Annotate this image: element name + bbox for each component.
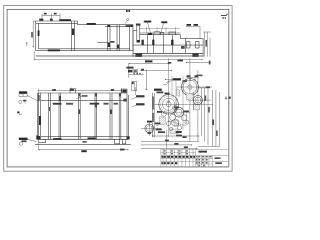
mid tall box xyxy=(132,82,137,91)
drawing number text xyxy=(215,157,221,159)
gear G3 inner xyxy=(195,97,201,103)
view C bottom dim text xyxy=(120,149,125,151)
text blob right of G1 xyxy=(174,107,179,109)
view B leader label 2 xyxy=(161,21,167,23)
view A left edge xyxy=(35,21,37,51)
mini grid top row texts xyxy=(196,156,197,157)
view A col1 bar xyxy=(72,29,75,36)
bottom-left cluster bold text xyxy=(19,138,28,140)
view A col3 bar xyxy=(117,45,119,49)
view C small boss left section xyxy=(70,89,76,94)
view B right edge xyxy=(202,38,204,56)
view C right band dark xyxy=(123,99,126,102)
view C col1 band bar xyxy=(49,107,51,111)
view C column pair 1 xyxy=(49,93,51,139)
mid ticks above 74.5 line xyxy=(134,73,135,74)
gear G7 xyxy=(178,126,182,130)
centerline shaft1 vertical xyxy=(168,58,170,137)
view C top dim text 1 xyxy=(52,89,56,91)
view B band dark bar xyxy=(148,33,153,35)
text blob left of G2 rim xyxy=(183,80,188,82)
view A dim text b xyxy=(54,13,57,15)
tolerance bold text xyxy=(19,91,27,93)
view A text bar on top edge right xyxy=(87,23,96,25)
view B leader lines xyxy=(148,23,164,33)
leader to wall xyxy=(27,95,38,101)
mid left vertical xyxy=(128,63,130,78)
title block right divisions xyxy=(195,155,228,167)
view B right window rects xyxy=(187,42,191,49)
view D left wall xyxy=(152,93,154,137)
view C band segment 4 xyxy=(104,103,109,105)
flanged bore circle inner xyxy=(147,126,153,132)
mid tolerance text row xyxy=(128,70,133,73)
bottom dim texts xyxy=(158,131,165,133)
extra small circle c xyxy=(172,119,179,126)
view A col2 mid bar xyxy=(108,43,110,47)
view C mid leader arrow xyxy=(76,97,82,100)
mini grid bottom marks xyxy=(198,165,200,167)
outer border frame xyxy=(4,6,232,172)
view C left wall bar low xyxy=(39,116,41,125)
view B bottom bold xyxy=(133,52,203,54)
baseline 1 xyxy=(36,54,203,56)
view label top center xyxy=(126,10,128,12)
view C right foot dark xyxy=(127,136,130,139)
view B dim text right b xyxy=(194,24,199,26)
small dim text left of view B xyxy=(126,25,130,27)
top right arrow note xyxy=(221,14,228,16)
G-VIEW-C front view of bed housing xyxy=(35,89,131,145)
extra small circle e xyxy=(185,120,189,124)
view B top band xyxy=(140,33,181,35)
gear G4 outer xyxy=(174,107,184,117)
view A mid dim line xyxy=(98,42,111,44)
G-MID between view B and view D xyxy=(129,63,172,90)
inner border frame xyxy=(7,9,229,167)
centerline small flange circle vertical xyxy=(148,121,150,136)
left grid small marks row1 xyxy=(164,150,166,151)
view C bottom dim line xyxy=(39,143,129,150)
view C boss dark xyxy=(122,90,126,93)
view C bottom text bar 1 xyxy=(53,138,61,140)
datum filled square xyxy=(17,111,19,113)
view A left wall bar xyxy=(38,30,40,36)
G-TOP-LABELS xyxy=(126,10,130,12)
view B step right xyxy=(179,35,181,39)
view B right dim rotated text xyxy=(206,40,208,47)
hatch patch low center xyxy=(170,129,178,134)
view A column pair 1 xyxy=(72,21,75,51)
view C col top ticks xyxy=(79,93,81,96)
leader texts of view D xyxy=(147,78,189,136)
roundness symbol circle xyxy=(19,100,22,103)
title block outline xyxy=(161,149,229,167)
mid box dark mark xyxy=(132,82,134,84)
view A inner left xyxy=(37,23,39,48)
centerline small flange circle horizontal xyxy=(141,127,161,129)
view B cap shaft dark xyxy=(137,40,140,43)
cluster centerline diagonal xyxy=(168,121,186,127)
text blob inside G1 top xyxy=(165,93,170,95)
view A text bar on bottom edge xyxy=(48,50,60,52)
cluster centerline horizontal xyxy=(158,111,190,113)
view C bottom dim text 2 xyxy=(81,150,87,152)
view A band line xyxy=(105,26,133,28)
view C top dim text 2 xyxy=(70,89,74,91)
gear G1 tip circle xyxy=(159,95,178,114)
view C top edge xyxy=(38,92,127,94)
mid text near vertical xyxy=(141,69,144,71)
view B foot right xyxy=(192,54,198,57)
text under flange circle xyxy=(148,132,152,134)
text phi left xyxy=(154,89,162,91)
G-LEFT-SYMBOLS tolerance frames left of view C xyxy=(19,94,38,115)
view A top edge bolt blocks xyxy=(39,19,43,21)
symbol extra marks xyxy=(23,100,26,102)
view A mid dim text xyxy=(111,41,115,43)
text phi left2 xyxy=(157,92,164,94)
view B lower right dim text xyxy=(178,59,184,61)
view A column pair 3 xyxy=(117,25,119,51)
view B boss box 3 xyxy=(169,32,176,35)
date text xyxy=(215,162,222,164)
view B cap top xyxy=(136,24,140,26)
gear G2 teeth ticks xyxy=(180,78,199,97)
view C right edge pair xyxy=(127,93,129,139)
dim texts above G2 xyxy=(187,75,190,77)
view A right edge pair xyxy=(130,24,133,50)
view A inner bottom xyxy=(38,48,129,50)
view C column pair 5 xyxy=(110,93,112,139)
view D wall hatch xyxy=(152,97,154,110)
centerline gear1 horizontal xyxy=(152,103,213,105)
left grid row4 blobs xyxy=(162,162,163,164)
view C column pair 6 xyxy=(119,93,121,139)
view C bottom edge bold xyxy=(37,138,129,141)
view C col4 bar top xyxy=(95,103,97,108)
gear G3 outer xyxy=(193,96,202,105)
view A bottom edge xyxy=(36,50,133,52)
view B boss box 2 xyxy=(161,32,164,34)
text top right row xyxy=(197,75,203,77)
G-GAP leaders between view C and D xyxy=(136,95,151,134)
view B cap column xyxy=(137,25,140,42)
text 2-phi13 xyxy=(155,123,161,125)
extra small circle f xyxy=(169,127,172,130)
gear G1 root circle xyxy=(163,98,175,110)
view A left small up arrow xyxy=(26,42,27,46)
view C dark mid band seg1 xyxy=(53,103,62,105)
view A top edge left section xyxy=(36,20,78,22)
view B top right edge xyxy=(180,37,203,39)
mid horizontal long arrow xyxy=(140,69,172,72)
text below flange xyxy=(156,129,162,131)
gear G6 xyxy=(167,122,171,126)
hatch patch between G4 G7 xyxy=(174,120,179,126)
gear G2 hub xyxy=(188,85,192,89)
drawing name text QC5.6 xyxy=(198,151,207,153)
view B leader label 1 xyxy=(144,21,152,23)
view C top right boss xyxy=(121,89,127,93)
gear G1 hub xyxy=(166,102,171,107)
centerline gear3 horizontal xyxy=(188,99,211,101)
view B right top dim xyxy=(186,27,200,39)
hatch patch right of G2 xyxy=(186,93,194,101)
view A right edge marks xyxy=(130,25,133,27)
view B bearing bar 2 xyxy=(152,40,154,45)
view A section leader circle xyxy=(125,20,127,23)
view B right dark marks xyxy=(181,46,185,49)
text right of G4 xyxy=(184,111,190,113)
extra small circle d xyxy=(181,115,187,121)
view B inner verticals xyxy=(148,35,186,54)
right vertical dim small text xyxy=(209,61,211,65)
title block mini grid xyxy=(195,155,212,167)
gap leader text 2 xyxy=(136,103,145,105)
hatch patch below G2 xyxy=(194,105,200,110)
mid dim line 210 xyxy=(129,62,170,65)
centerline gear2 horizontal xyxy=(176,86,212,88)
view C band segment 3 xyxy=(90,103,100,105)
view C col3 bar xyxy=(79,110,81,115)
mid horizontal short xyxy=(129,74,144,76)
title block left grid columns xyxy=(163,149,195,167)
extra shaft extension lines xyxy=(172,76,193,130)
left grid small marks row2 xyxy=(164,153,166,155)
view C foot boxes below xyxy=(115,139,126,144)
datum bracket xyxy=(20,112,23,115)
dim extensions above G2 xyxy=(186,75,199,81)
text right of G2 xyxy=(206,86,210,88)
gear G4 inner xyxy=(176,109,182,115)
view B dim text right a xyxy=(187,24,192,26)
view B lower right dim xyxy=(186,61,211,64)
G-VIEW-A plan view of machine bed xyxy=(36,21,133,51)
G-VIEW-B front view of apron assembly xyxy=(133,24,203,57)
left grid bold row blobs xyxy=(161,156,162,158)
view C col5 bar xyxy=(110,110,112,115)
view A text bar on top edge left xyxy=(59,19,71,21)
view C left foot dark xyxy=(37,136,41,139)
bottom-left leader xyxy=(28,140,37,142)
view C col2 bar top xyxy=(59,96,61,101)
G-TITLEBLOCK xyxy=(161,149,229,167)
G-BASELINES under views A and B xyxy=(34,51,203,60)
gear G2 tip circle xyxy=(181,79,198,96)
view A dim text a xyxy=(44,13,47,15)
wall hatch patch left of G2 xyxy=(176,89,180,97)
view B dim ticks above band xyxy=(140,27,180,33)
view B bearing bar 1 xyxy=(142,40,144,45)
gap leader text 1 xyxy=(136,95,145,97)
mini grid low row texts xyxy=(196,162,197,164)
view A step xyxy=(77,21,79,25)
view B mid flange line xyxy=(133,44,203,46)
gap leader lines xyxy=(132,97,137,107)
mid dim text xyxy=(145,60,153,62)
text near flange circle top xyxy=(147,121,152,123)
view B foot left xyxy=(135,54,142,57)
view C band segment 5 xyxy=(114,103,119,105)
text below G7 xyxy=(176,135,182,137)
view A col2 mark xyxy=(108,25,110,27)
view B bearing bar 3 xyxy=(171,40,173,45)
far right perpendicularity symbols xyxy=(225,96,228,99)
top dim arrow line xyxy=(165,78,181,81)
flanged bore circle outer xyxy=(145,124,154,133)
view B left edge xyxy=(132,31,134,57)
extra small circle b xyxy=(161,111,166,116)
view D leader lines xyxy=(156,80,173,126)
view C mid leader text xyxy=(82,95,88,97)
G-VIEWD-DIMS right vertical dimension lines xyxy=(198,88,220,146)
gear G5 xyxy=(170,114,176,120)
gap vertical extension xyxy=(134,87,136,95)
gear G1 pitch circle xyxy=(161,96,177,112)
title block left grid rows xyxy=(161,152,196,161)
view A left dim vertical xyxy=(33,21,36,47)
baseline 2 xyxy=(36,56,203,58)
mini grid mid row texts xyxy=(196,159,197,161)
view C bottom text bar 2 xyxy=(88,137,96,139)
view A column pair 2 xyxy=(108,25,111,51)
mid upper text row xyxy=(127,67,134,69)
view C top dim line xyxy=(38,88,122,94)
view C left wall hatch top xyxy=(38,95,40,101)
right dim rotated texts xyxy=(205,96,207,102)
view A top edge right section xyxy=(78,24,134,26)
view B right dim verticals xyxy=(203,32,211,57)
G-VIEWD-BOTTOM dims under view D xyxy=(141,115,199,149)
hatch patch below G1 xyxy=(160,117,166,126)
G-VIEW-D gear train section view xyxy=(141,58,213,137)
view C inner horizontal upper xyxy=(41,100,127,102)
view A inner line left section xyxy=(36,22,78,24)
extra small circle a xyxy=(173,105,177,109)
view C left foot xyxy=(37,136,46,143)
gear G1 teeth ticks xyxy=(158,94,180,116)
text phi top xyxy=(173,78,181,80)
view C ground line xyxy=(35,144,131,146)
view C inner horizontal lower xyxy=(41,135,127,137)
centerline shaft2 vertical xyxy=(189,58,191,122)
title block text blobs xyxy=(161,150,222,166)
view C top dim text 3 xyxy=(111,89,114,91)
overall length dim line xyxy=(34,51,202,60)
view A left rotated dim text xyxy=(31,32,33,38)
view C left edge pair xyxy=(38,93,41,139)
view A top dim row xyxy=(42,14,60,22)
text left mid xyxy=(157,111,162,113)
mid dim text right xyxy=(168,62,172,64)
view C column pair 4 xyxy=(95,93,97,139)
view C dark mid band seg2 xyxy=(66,103,73,105)
view B top short xyxy=(133,30,137,32)
bottom-left circle symbol xyxy=(19,142,22,145)
sheet background xyxy=(0,0,240,180)
view C column pair 2 xyxy=(59,93,61,139)
gear G1 keyway xyxy=(168,101,170,102)
view C column pair 3 xyxy=(79,93,81,139)
view B boss box 1 xyxy=(154,32,160,35)
gear G2 root circle xyxy=(183,80,197,94)
view C below-edge small text xyxy=(83,141,87,143)
tolerance frame xyxy=(19,94,27,97)
centerline shaft3 vertical xyxy=(197,70,199,115)
mid vertical extension xyxy=(145,70,148,91)
